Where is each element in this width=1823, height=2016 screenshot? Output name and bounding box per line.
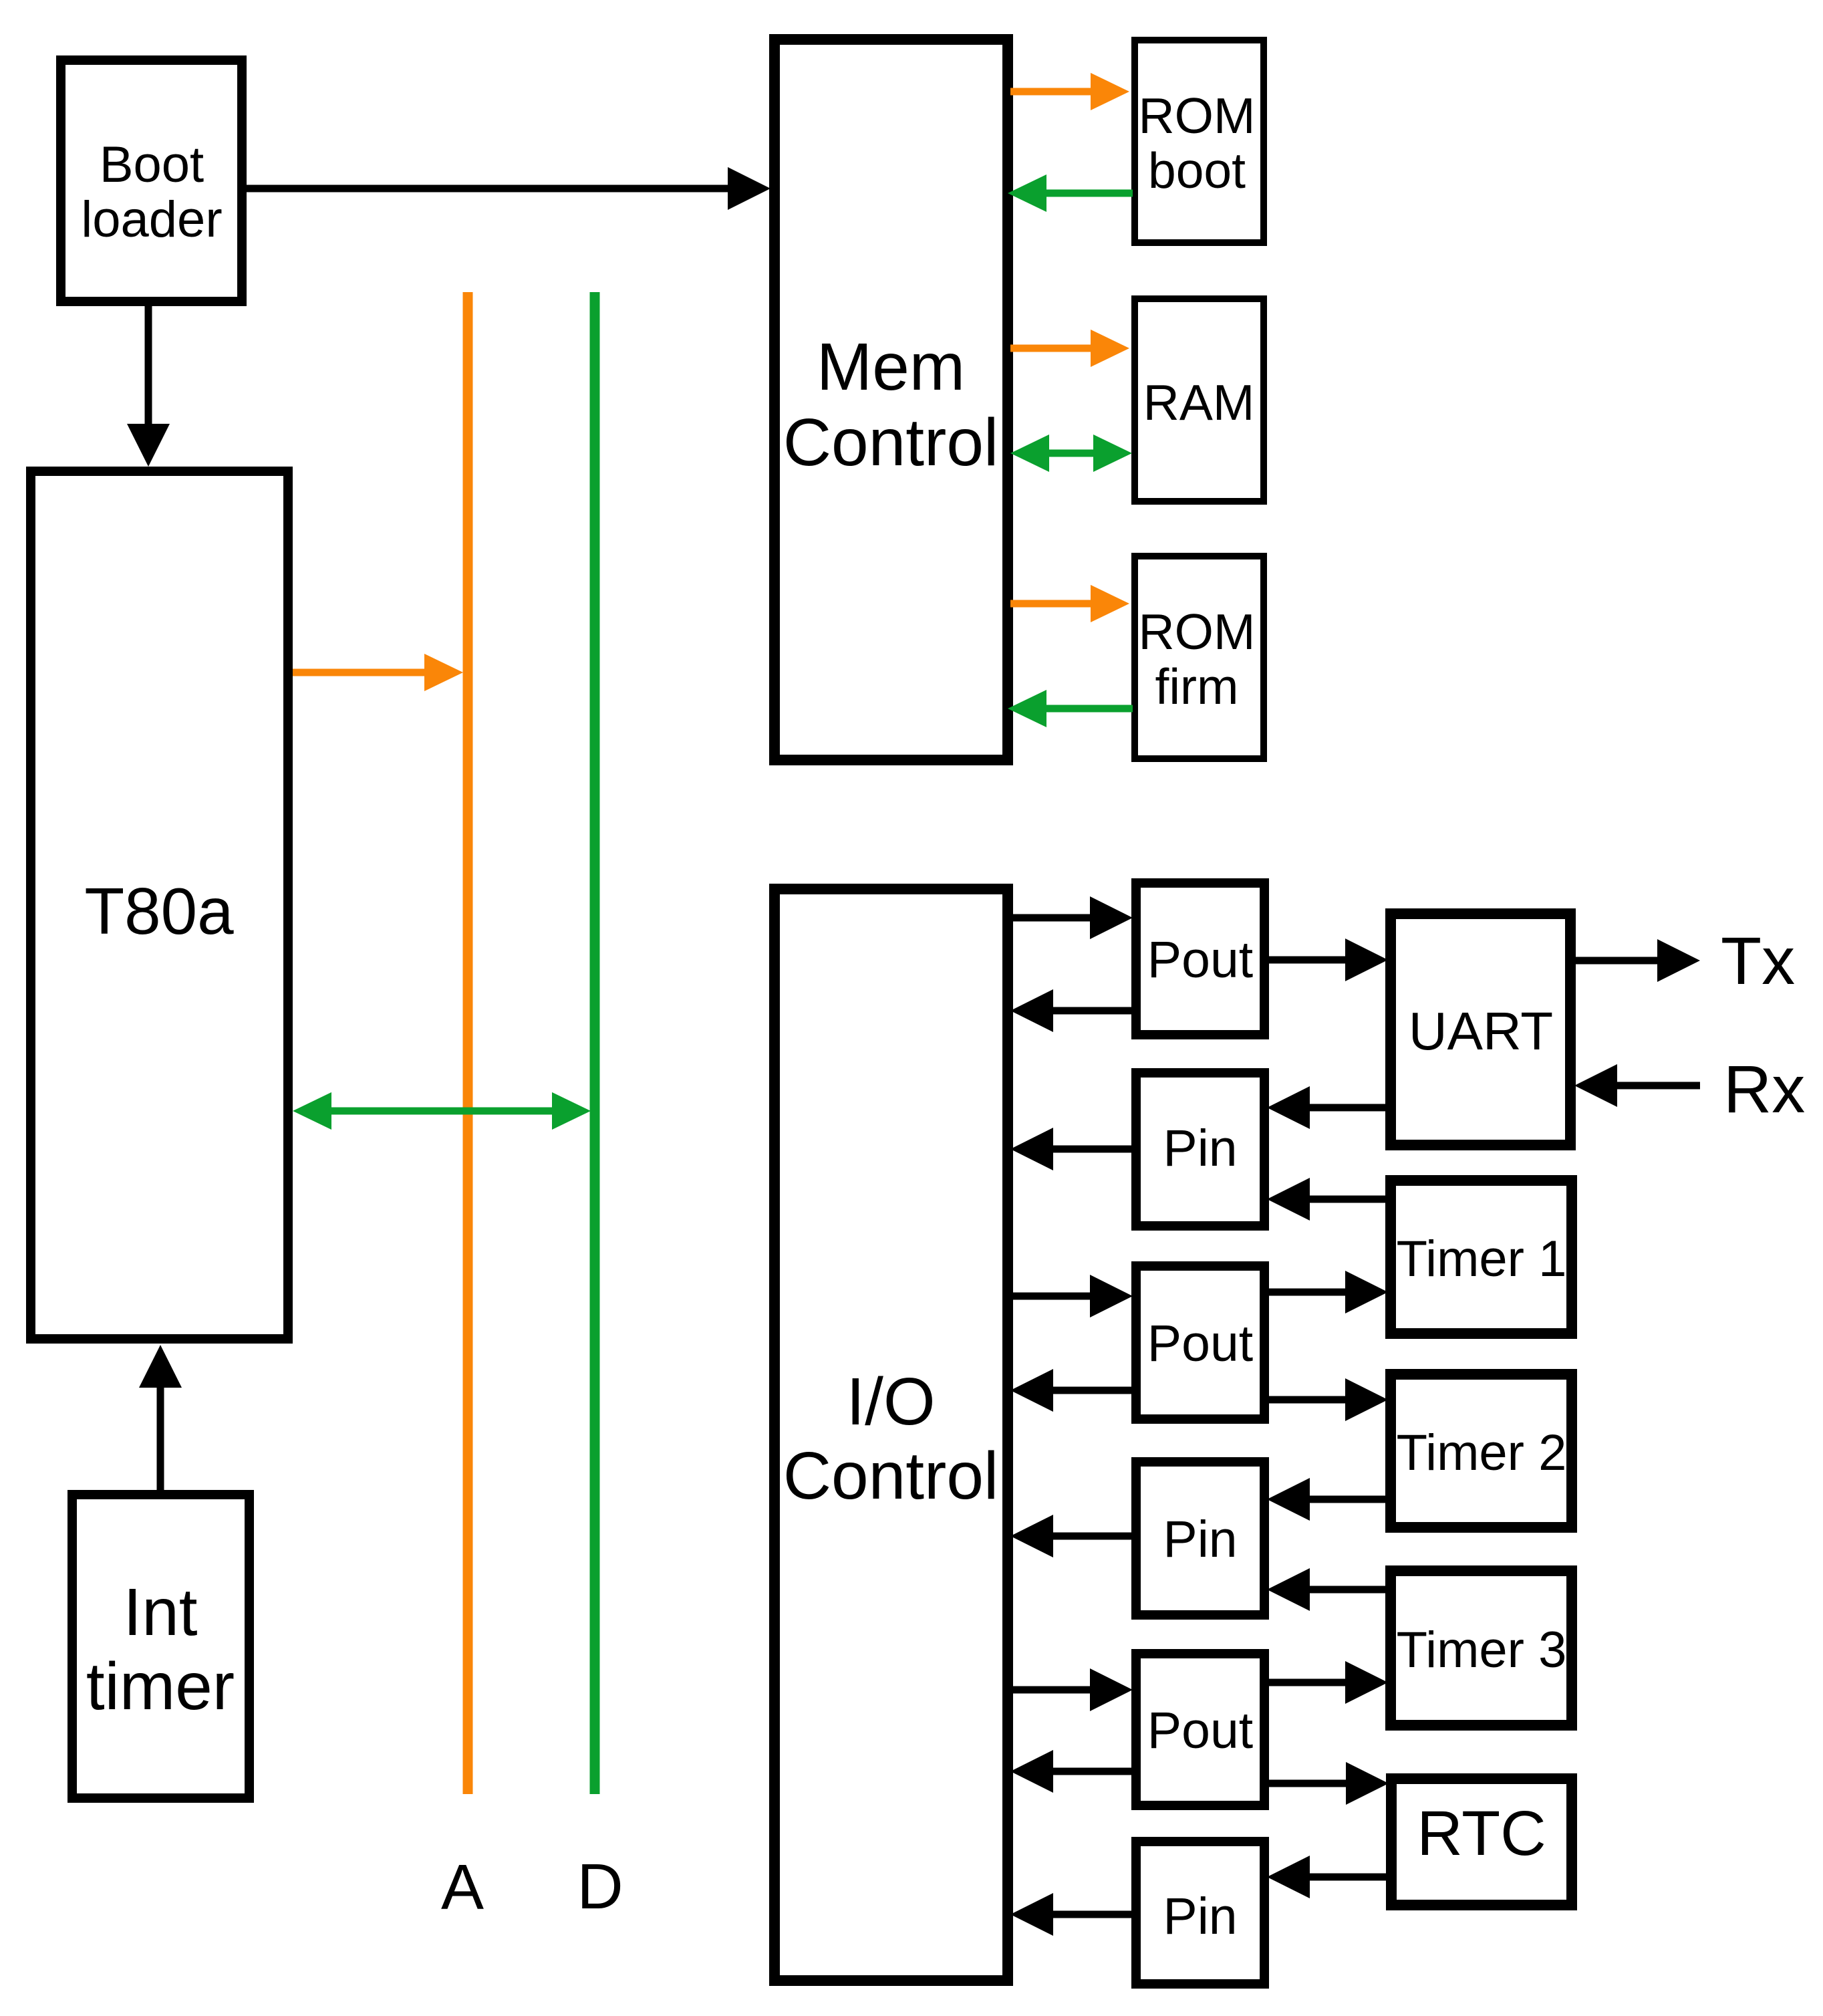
svg-text:Pin: Pin	[1163, 1888, 1237, 1945]
block Boot loader	[61, 60, 242, 301]
svg-text:Pout: Pout	[1147, 1702, 1253, 1759]
wire Boot loader to T80a	[127, 304, 170, 467]
svg-text:Control: Control	[783, 405, 998, 480]
bus A (orange vertical line)	[463, 292, 473, 1794]
block RTC	[1391, 1779, 1572, 1905]
block ROM firm	[1135, 556, 1264, 759]
wire ROM firm to Mem Control (green arrow)	[1008, 690, 1133, 727]
svg-text:firm: firm	[1155, 658, 1239, 715]
block Timer 3	[1391, 1571, 1572, 1725]
wire Mem Control to ROM boot (orange arrow)	[1010, 73, 1129, 110]
wire T80a to bus D (green double arrow)	[293, 1092, 591, 1130]
svg-text:Timer 1: Timer 1	[1397, 1231, 1567, 1287]
block UART	[1391, 914, 1570, 1145]
wire Pout 1 to I/O Control	[1010, 989, 1134, 1032]
block Pout 1	[1136, 883, 1264, 1035]
wire UART to Tx	[1570, 939, 1700, 982]
wire Pin 3 to I/O Control	[1010, 1893, 1134, 1936]
wire ROM boot to Mem Control (green arrow)	[1008, 174, 1133, 212]
svg-text:I/O: I/O	[846, 1364, 935, 1439]
block Pin 3	[1136, 1842, 1264, 1984]
wire UART to Pin 1	[1267, 1086, 1389, 1129]
wire Pout 3 to Timer 3	[1266, 1661, 1388, 1704]
block T80a	[31, 471, 288, 1339]
block I/O Control	[775, 889, 1008, 1981]
wire Pin 2 to I/O Control	[1010, 1515, 1134, 1557]
block Pin 1	[1136, 1073, 1264, 1226]
wire Pin 1 to I/O Control	[1010, 1128, 1134, 1170]
svg-text:Pout: Pout	[1147, 931, 1253, 989]
wire Timer 2 to Pin 2	[1267, 1478, 1389, 1521]
svg-text:UART: UART	[1409, 1001, 1553, 1061]
svg-text:Tx: Tx	[1721, 924, 1795, 999]
block Timer 2	[1391, 1374, 1572, 1527]
wire Pout 2 to I/O Control	[1010, 1369, 1134, 1412]
wire Pout 3 to RTC	[1266, 1762, 1389, 1805]
block Pout 2	[1136, 1266, 1264, 1419]
svg-text:Boot: Boot	[100, 136, 204, 193]
wire Pout 2 to Timer 1	[1266, 1271, 1388, 1313]
svg-text:Pout: Pout	[1147, 1315, 1253, 1372]
wire Mem Control to RAM (green double arrow)	[1010, 434, 1132, 472]
svg-text:Timer 2: Timer 2	[1397, 1424, 1567, 1481]
svg-text:Int: Int	[123, 1575, 197, 1650]
wire Pout 2 to Timer 2	[1266, 1378, 1388, 1421]
svg-text:D: D	[577, 1851, 623, 1922]
svg-text:RAM: RAM	[1143, 374, 1255, 430]
block ROM boot	[1135, 40, 1264, 243]
svg-text:T80a: T80a	[84, 874, 234, 948]
block Pin 2	[1136, 1462, 1264, 1615]
wire Mem Control to RAM (orange arrow)	[1010, 330, 1129, 367]
svg-text:Rx: Rx	[1723, 1052, 1805, 1127]
wire Timer 3 to Pin 2	[1267, 1568, 1389, 1611]
wire Boot loader to Mem Control	[244, 167, 770, 210]
svg-text:boot: boot	[1148, 142, 1246, 199]
svg-text:Control: Control	[783, 1438, 998, 1513]
block Mem Control	[775, 39, 1008, 760]
svg-text:Pin: Pin	[1163, 1120, 1237, 1177]
wire Pout 1 to UART	[1266, 938, 1388, 981]
block Int timer	[72, 1495, 249, 1798]
block RAM	[1135, 299, 1264, 501]
wire Rx to UART	[1574, 1064, 1700, 1107]
wire I/O Control to Pout 3	[1010, 1668, 1133, 1711]
svg-text:A: A	[441, 1852, 484, 1923]
svg-text:Pin: Pin	[1163, 1511, 1237, 1568]
svg-text:Timer 3: Timer 3	[1397, 1622, 1567, 1678]
wire I/O Control to Pout 2	[1010, 1275, 1133, 1317]
block Pout 3	[1136, 1654, 1264, 1805]
svg-text:RTC: RTC	[1417, 1798, 1546, 1869]
wire Int timer to T80a	[139, 1345, 182, 1492]
svg-text:ROM: ROM	[1139, 88, 1256, 144]
bus D (green vertical line)	[590, 292, 600, 1794]
wire Pout 3 to I/O Control	[1010, 1750, 1134, 1793]
wire RTC to Pin 3	[1267, 1856, 1390, 1898]
wire Mem Control to ROM firm (orange arrow)	[1010, 585, 1129, 622]
svg-text:ROM: ROM	[1139, 604, 1256, 660]
svg-text:loader: loader	[81, 191, 222, 248]
svg-text:timer: timer	[86, 1649, 235, 1724]
wire T80a to bus A (orange arrow)	[293, 654, 463, 691]
block Timer 1	[1391, 1180, 1572, 1334]
wire I/O Control to Pout 1	[1010, 896, 1133, 939]
svg-text:Mem: Mem	[817, 330, 965, 404]
wire Timer 1 to Pin 1	[1267, 1178, 1389, 1221]
